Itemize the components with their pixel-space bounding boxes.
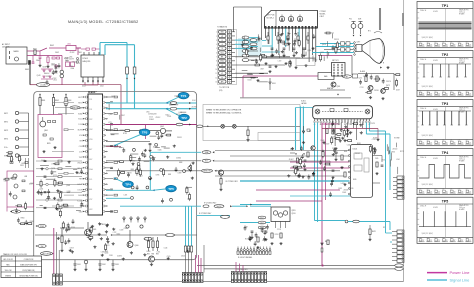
svg-text:H1: H1 bbox=[221, 65, 223, 67]
svg-text:Q2R1: Q2R1 bbox=[292, 210, 296, 212]
ferrite bead on video out 2 bbox=[170, 107, 191, 110]
wire to front led 3 bbox=[58, 250, 60, 274]
ir receiver pill bbox=[7, 207, 34, 213]
wire AC neutral bbox=[27, 55, 62, 57]
degauss wire bbox=[29, 65, 31, 85]
svg-text:D386: D386 bbox=[262, 240, 266, 242]
svg-text:2V: 2V bbox=[430, 240, 432, 242]
svg-text:R190: R190 bbox=[245, 45, 249, 47]
key connector CN801 bbox=[4, 111, 29, 157]
wires into yoke connector bbox=[386, 186, 393, 242]
transistor QG green amp bbox=[288, 15, 293, 22]
signal wire mute bbox=[120, 203, 232, 209]
svg-text:IC301: IC301 bbox=[301, 101, 306, 103]
svg-text:SCL: SCL bbox=[89, 179, 92, 181]
svg-text:2V: 2V bbox=[462, 240, 464, 242]
IC901 right pins bbox=[103, 96, 118, 212]
measurement strip TP4 bbox=[419, 189, 472, 194]
left sub-circuit box sensor bbox=[7, 171, 34, 207]
svg-text:S-CUR: S-CUR bbox=[77, 200, 83, 202]
svg-text:C218: C218 bbox=[277, 229, 281, 231]
waveform panel TP5 bbox=[417, 197, 473, 243]
svg-text:0.2: 0.2 bbox=[419, 189, 421, 191]
svg-text:Q139: Q139 bbox=[349, 188, 353, 190]
svg-text:Signal Line: Signal Line bbox=[450, 278, 471, 283]
svg-text:ABL: ABL bbox=[324, 75, 327, 78]
svg-text:0.2: 0.2 bbox=[458, 237, 460, 239]
svg-text:ZD634: ZD634 bbox=[176, 158, 181, 160]
ground for C601 bbox=[38, 64, 41, 67]
svg-text:2V: 2V bbox=[423, 142, 425, 144]
power wire 12V to sound bbox=[290, 161, 350, 163]
svg-text:0.2: 0.2 bbox=[427, 140, 429, 142]
test point TP2 callout bbox=[166, 108, 190, 121]
svg-text:5.0V p-p: 5.0V p-p bbox=[459, 60, 465, 62]
svg-text:ZD123: ZD123 bbox=[127, 172, 132, 174]
svg-text:2V: 2V bbox=[454, 93, 456, 95]
svg-text:ZD795: ZD795 bbox=[370, 123, 375, 125]
sound input components bbox=[331, 148, 347, 186]
resistor R803 bbox=[65, 94, 72, 115]
svg-text:0.2: 0.2 bbox=[419, 140, 421, 142]
svg-text:C943: C943 bbox=[115, 264, 119, 266]
svg-text:ZD931: ZD931 bbox=[177, 137, 182, 139]
svg-text:AC INPUT: AC INPUT bbox=[2, 43, 10, 46]
left deflection feed components bbox=[290, 149, 307, 171]
svg-text:HT: HT bbox=[346, 76, 348, 78]
svg-text:L744: L744 bbox=[396, 159, 400, 161]
v-out coupling to yoke bbox=[366, 131, 399, 190]
svg-text:Q922: Q922 bbox=[258, 38, 262, 40]
capacitor C942 bbox=[98, 260, 105, 271]
svg-text:REMOTE: REMOTE bbox=[71, 107, 79, 109]
svg-text:L621: L621 bbox=[320, 52, 324, 54]
svg-text:KEY1: KEY1 bbox=[4, 113, 8, 115]
svg-text:L159: L159 bbox=[278, 60, 282, 62]
svg-text:FBT T471: FBT T471 bbox=[332, 60, 339, 62]
svg-text:ZD912: ZD912 bbox=[156, 117, 161, 119]
main board outline bbox=[34, 92, 197, 260]
svg-text:R783: R783 bbox=[123, 133, 127, 135]
svg-text:R93: R93 bbox=[152, 254, 155, 256]
svg-text:R410: R410 bbox=[166, 115, 170, 117]
svg-text:2V: 2V bbox=[462, 93, 464, 95]
IC901 left pin wires bbox=[52, 97, 83, 213]
power drops to bottom connector bbox=[196, 245, 205, 273]
svg-text:L726: L726 bbox=[381, 160, 385, 162]
svg-text:0.2: 0.2 bbox=[434, 140, 436, 142]
component cluster bbox=[329, 178, 353, 197]
yoke connector CN471 bbox=[383, 227, 404, 262]
deflection IC pins bbox=[314, 119, 370, 123]
svg-text:FOC: FOC bbox=[349, 19, 352, 21]
component cluster bbox=[37, 160, 85, 218]
rgb y wire bbox=[240, 222, 270, 224]
svg-text:R953: R953 bbox=[336, 123, 340, 125]
svg-text:C400: C400 bbox=[261, 55, 265, 57]
svg-text:WHEN TV RECEIVER ON / OFF,MUT: WHEN TV RECEIVER ON / OFF,MUTE bbox=[206, 110, 242, 112]
anode high voltage lead bbox=[368, 8, 382, 33]
svg-text:D548: D548 bbox=[342, 192, 346, 194]
test point TP5 callout bbox=[153, 185, 177, 191]
svg-text:2V: 2V bbox=[446, 44, 448, 46]
svg-text:5.0V p-p: 5.0V p-p bbox=[459, 158, 465, 160]
svg-text:R611: R611 bbox=[344, 151, 347, 153]
svg-text:C942: C942 bbox=[102, 264, 106, 266]
crt pcb pin drop wires bbox=[266, 29, 316, 63]
svg-text:0.2: 0.2 bbox=[442, 237, 444, 239]
svg-text:L811: L811 bbox=[69, 57, 73, 59]
svg-text:ZD738: ZD738 bbox=[192, 107, 197, 109]
svg-text:L822: L822 bbox=[53, 80, 57, 82]
svg-text:C601: C601 bbox=[36, 60, 40, 62]
test point TP3 callout bbox=[114, 129, 150, 147]
svg-text:2V: 2V bbox=[430, 191, 432, 193]
capacitor C606 bbox=[71, 62, 75, 70]
pump-up diode cluster bbox=[296, 107, 313, 151]
svg-text:L683: L683 bbox=[21, 163, 25, 165]
earth arrows bbox=[380, 62, 385, 69]
svg-text:P01: P01 bbox=[89, 99, 92, 101]
svg-text:1(4V) 2C 3(4V): 1(4V) 2C 3(4V) bbox=[422, 135, 434, 137]
svg-text:2V: 2V bbox=[438, 44, 440, 46]
svg-text:Q791: Q791 bbox=[187, 198, 191, 200]
fuse F601 bbox=[25, 61, 31, 72]
svg-text:0.2: 0.2 bbox=[419, 91, 421, 93]
test point TP1 callout bbox=[166, 92, 189, 104]
deflection IC IC301 label bbox=[301, 101, 307, 106]
gnd rail bbox=[204, 267, 403, 270]
svg-text:0.2: 0.2 bbox=[466, 140, 468, 142]
svg-text:TP3: TP3 bbox=[142, 131, 148, 135]
svg-text:D669: D669 bbox=[147, 251, 151, 253]
component cluster bbox=[98, 222, 127, 245]
svg-text:0.2: 0.2 bbox=[458, 91, 460, 93]
svg-text:C984: C984 bbox=[124, 228, 128, 230]
svg-text:Q801: Q801 bbox=[44, 130, 48, 132]
transistor symbol Q201 bbox=[221, 124, 225, 128]
svg-text:ZD233: ZD233 bbox=[153, 147, 158, 149]
svg-text:B: B bbox=[222, 48, 223, 50]
svg-text:COL: COL bbox=[79, 151, 82, 153]
svg-text:2V: 2V bbox=[454, 142, 456, 144]
svg-text:D645: D645 bbox=[158, 150, 162, 152]
crt socket input wires bbox=[312, 42, 354, 75]
mute line through note box bbox=[197, 125, 300, 128]
waveform trace TP5 bbox=[419, 211, 471, 227]
rgb buffer box bbox=[271, 207, 296, 228]
ferrite bead on video out 1 bbox=[170, 102, 191, 105]
svg-text:VOL: VOL bbox=[79, 135, 82, 137]
svg-text:C996: C996 bbox=[155, 175, 159, 177]
svg-text:2V: 2V bbox=[462, 44, 464, 46]
svg-text:0.2: 0.2 bbox=[427, 91, 429, 93]
component cluster bbox=[108, 96, 125, 131]
crt funnel bbox=[362, 39, 385, 64]
component cluster bbox=[242, 55, 268, 82]
waveform trace TP2 bbox=[419, 64, 471, 77]
sound out wire bbox=[290, 195, 350, 197]
yoke damp resistor bbox=[368, 225, 375, 241]
svg-text:MUTE: MUTE bbox=[78, 130, 83, 132]
svg-text:0.2: 0.2 bbox=[450, 237, 452, 239]
svg-text:L722: L722 bbox=[113, 232, 117, 234]
power wire 5V to sound bbox=[290, 167, 350, 169]
g-y pill bbox=[258, 221, 266, 224]
audio mute wire bbox=[232, 205, 271, 207]
svg-text:0.5V/D: 0.5V/D bbox=[433, 207, 439, 209]
svg-text:2V: 2V bbox=[446, 240, 448, 242]
connector CN201 outline bbox=[217, 26, 237, 93]
svg-text:R93: R93 bbox=[156, 254, 159, 256]
svg-text:ST-BY(TIMER ON): ST-BY(TIMER ON) bbox=[22, 270, 35, 272]
sub-circuit box Q801 reset bbox=[38, 115, 62, 158]
svg-text:C349: C349 bbox=[119, 229, 123, 231]
svg-text:2V: 2V bbox=[423, 93, 425, 95]
legend power line bbox=[427, 270, 470, 275]
waveform trace TP1 bbox=[419, 22, 472, 30]
svg-text:L689: L689 bbox=[244, 226, 248, 228]
svg-text:CONDITION: CONDITION bbox=[24, 259, 34, 261]
svg-text:SCL: SCL bbox=[205, 161, 208, 163]
svg-text:L867: L867 bbox=[65, 60, 69, 62]
svg-text:2V: 2V bbox=[454, 44, 456, 46]
svg-text:0.2: 0.2 bbox=[442, 42, 444, 44]
svg-text:R346: R346 bbox=[321, 140, 325, 142]
bottom connector CN903 bbox=[182, 273, 203, 283]
svg-text:H2: H2 bbox=[221, 69, 223, 71]
svg-text:2V: 2V bbox=[423, 191, 425, 193]
signal wire scl bbox=[106, 159, 214, 162]
component cluster bbox=[146, 112, 161, 121]
svg-text:TP4: TP4 bbox=[442, 151, 448, 155]
AC mains input socket bbox=[6, 47, 27, 64]
svg-text:P02: P02 bbox=[89, 109, 92, 111]
svg-text:0.5V/D: 0.5V/D bbox=[433, 158, 439, 160]
svg-text:GND2: GND2 bbox=[220, 61, 224, 63]
svg-text:Q2G1: Q2G1 bbox=[292, 213, 296, 215]
svg-text:D526: D526 bbox=[181, 256, 185, 258]
svg-text:C606: C606 bbox=[71, 68, 75, 70]
svg-text:C941: C941 bbox=[77, 264, 81, 266]
svg-text:V.YOKE: V.YOKE bbox=[394, 138, 399, 140]
signal wire vertical sync bbox=[106, 189, 153, 191]
svg-text:2V: 2V bbox=[438, 240, 440, 242]
wires CN201 to crt drive bbox=[235, 39, 290, 82]
svg-text:2V: 2V bbox=[438, 142, 440, 144]
svg-text:0.2: 0.2 bbox=[466, 189, 468, 191]
chroma caps bbox=[250, 231, 282, 249]
svg-text:Q183: Q183 bbox=[338, 188, 342, 190]
transistor Q906 bbox=[127, 230, 139, 248]
svg-text:R842: R842 bbox=[73, 61, 77, 63]
component cluster bbox=[381, 143, 403, 175]
svg-text:R860: R860 bbox=[21, 218, 25, 220]
svg-text:2V: 2V bbox=[446, 142, 448, 144]
resistor R802 bbox=[52, 94, 59, 115]
svg-text:IC901*: IC901* bbox=[88, 90, 97, 94]
deflection sub components bbox=[322, 124, 380, 150]
svg-text:Q948: Q948 bbox=[42, 67, 46, 69]
svg-text:CRT PCB: CRT PCB bbox=[267, 15, 276, 17]
svg-text:Q905: Q905 bbox=[92, 229, 96, 231]
svg-text:IC601: IC601 bbox=[353, 149, 358, 151]
svg-text:D510: D510 bbox=[330, 33, 334, 35]
highlight background bbox=[238, 38, 262, 56]
svg-text:V-OUT: V-OUT bbox=[77, 190, 82, 192]
svg-text:C505: C505 bbox=[167, 256, 171, 258]
transistor symbol Q202 bbox=[232, 124, 236, 128]
svg-text:2V: 2V bbox=[446, 93, 448, 95]
svg-text:D301: D301 bbox=[272, 83, 276, 85]
svg-text:C478: C478 bbox=[51, 168, 55, 170]
svg-text:D605: D605 bbox=[82, 86, 86, 88]
bridge rectifier D601-604 bbox=[41, 69, 53, 79]
i2c bus wire to tuner bbox=[215, 150, 350, 152]
svg-text:0.2: 0.2 bbox=[419, 237, 421, 239]
page divider line bbox=[402, 0, 405, 270]
svg-text:ZD581: ZD581 bbox=[343, 190, 348, 192]
svg-text:V2: V2 bbox=[221, 77, 223, 79]
svg-text:2V: 2V bbox=[446, 191, 448, 193]
svg-text:C612: C612 bbox=[100, 86, 104, 88]
led drive pill bbox=[41, 252, 54, 256]
svg-text:TO CRT PCB: TO CRT PCB bbox=[219, 87, 230, 89]
svg-text:0.2: 0.2 bbox=[442, 91, 444, 93]
signal wire h-sync bbox=[106, 197, 130, 199]
svg-text:C261: C261 bbox=[372, 139, 376, 141]
svg-text:2V: 2V bbox=[430, 93, 432, 95]
crt neck socket bbox=[354, 42, 362, 56]
svg-text:L546: L546 bbox=[164, 247, 168, 249]
power wire to front led bbox=[53, 228, 55, 274]
b+ adjust circuit bbox=[353, 70, 395, 100]
svg-text:R172: R172 bbox=[245, 238, 249, 240]
svg-text:C214: C214 bbox=[149, 117, 153, 119]
svg-text:TP2: TP2 bbox=[442, 53, 448, 57]
svg-text:2V: 2V bbox=[462, 142, 464, 144]
svg-text:0.2: 0.2 bbox=[442, 140, 444, 142]
svg-text:0.2: 0.2 bbox=[458, 140, 460, 142]
svg-text:Power Line: Power Line bbox=[450, 270, 471, 275]
svg-text:FBP: FBP bbox=[79, 179, 82, 181]
svg-text:0.2: 0.2 bbox=[466, 42, 468, 44]
connector CN201 pins bbox=[215, 30, 235, 84]
crt drive bias parts bbox=[262, 32, 316, 58]
component cluster bbox=[319, 32, 338, 62]
svg-text:Q906: Q906 bbox=[135, 245, 139, 247]
svg-text:0.2: 0.2 bbox=[434, 91, 436, 93]
svg-text:D167: D167 bbox=[30, 183, 34, 185]
svg-text:SW: SW bbox=[41, 246, 44, 248]
svg-text:Q333: Q333 bbox=[152, 114, 156, 116]
h yoke connector CN472 bbox=[393, 176, 404, 199]
svg-text:ZD464: ZD464 bbox=[346, 123, 351, 125]
capacitor C941 bbox=[73, 260, 80, 271]
svg-text:L601: L601 bbox=[67, 44, 71, 46]
svg-text:WHEN TV RECEIVER (1A) / CONTR: WHEN TV RECEIVER (1A) / CONTROL bbox=[206, 112, 243, 115]
diode D301 bbox=[269, 78, 276, 90]
svg-text:R927: R927 bbox=[46, 76, 50, 78]
svg-text:KD1 WK-4: KD1 WK-4 bbox=[267, 18, 274, 20]
svg-text:2V: 2V bbox=[438, 191, 440, 193]
waveform panel TP4 bbox=[417, 149, 473, 195]
capacitor C943 bbox=[111, 260, 118, 271]
deflection pin drop wires bbox=[315, 123, 370, 266]
legend signal line bbox=[427, 278, 470, 283]
svg-text:Q828: Q828 bbox=[322, 44, 326, 46]
svg-text:0.2: 0.2 bbox=[450, 189, 452, 191]
power wire 9V rail bbox=[106, 123, 197, 126]
svg-text:0.2: 0.2 bbox=[458, 189, 460, 191]
svg-text:ZD607: ZD607 bbox=[289, 159, 294, 161]
svg-text:LED COLOR: LED COLOR bbox=[3, 259, 14, 261]
svg-text:F601: F601 bbox=[25, 69, 29, 71]
svg-text:C611: C611 bbox=[347, 145, 351, 147]
svg-text:TP2: TP2 bbox=[181, 116, 187, 120]
main h-gnd bus bbox=[240, 97, 351, 99]
svg-text:0.5V/D: 0.5V/D bbox=[433, 60, 439, 62]
component cluster bbox=[119, 147, 182, 177]
power wire heater bbox=[243, 76, 318, 98]
wire to front led 2 bbox=[56, 232, 58, 274]
wire IC501 to line filter bbox=[76, 48, 81, 55]
component cluster bbox=[3, 152, 34, 225]
waveform trace TP3 bbox=[419, 111, 471, 125]
svg-text:C166: C166 bbox=[260, 228, 264, 230]
bottom connector CN904 bbox=[231, 269, 266, 283]
degauss loop wire bbox=[234, 7, 262, 40]
svg-text:D259: D259 bbox=[396, 89, 400, 91]
svg-text:REMOTE: REMOTE bbox=[203, 171, 211, 173]
signal wire option bbox=[197, 213, 230, 218]
remote in wire bbox=[106, 169, 216, 173]
svg-text:Q568: Q568 bbox=[66, 185, 70, 187]
component rows left of IC901 bbox=[36, 160, 82, 209]
svg-text:0.2: 0.2 bbox=[419, 42, 421, 44]
signal wire bus top bbox=[100, 43, 135, 109]
svg-text:TO POWER B'D: TO POWER B'D bbox=[236, 269, 248, 271]
svg-text:C430: C430 bbox=[102, 224, 106, 226]
svg-text:IF CT25B2 ONLY: IF CT25B2 ONLY bbox=[226, 181, 239, 183]
vertical blank wire bbox=[256, 189, 340, 191]
svg-text:C851: C851 bbox=[20, 165, 24, 167]
svg-text:L853: L853 bbox=[139, 176, 143, 178]
svg-text:R345: R345 bbox=[54, 73, 58, 75]
svg-text:ZD162: ZD162 bbox=[355, 153, 360, 155]
svg-text:0.2: 0.2 bbox=[434, 189, 436, 191]
svg-text:C615: C615 bbox=[375, 158, 379, 160]
svg-text:YELLOW: YELLOW bbox=[4, 270, 11, 272]
resistor network R931-933 bbox=[147, 237, 159, 256]
B+ wire to main board bbox=[30, 85, 121, 125]
svg-text:TP4: TP4 bbox=[125, 183, 131, 187]
svg-text:V1: V1 bbox=[221, 73, 223, 75]
svg-text:KEY3: KEY3 bbox=[4, 130, 8, 132]
sync wire bbox=[35, 234, 197, 237]
svg-text:ZD607: ZD607 bbox=[324, 144, 329, 146]
svg-text:1(4V) 2C 3(4V): 1(4V) 2C 3(4V) bbox=[422, 233, 434, 235]
cyan drops to bottom connector bbox=[186, 206, 192, 246]
crt pcb outline bbox=[265, 11, 318, 28]
signal wire video out 2 bbox=[106, 108, 197, 110]
svg-text:IC501: IC501 bbox=[83, 58, 89, 60]
waveform trace TP4 bbox=[419, 165, 471, 179]
x-ray protect pill bbox=[144, 237, 152, 240]
svg-text:2V: 2V bbox=[469, 240, 471, 242]
svg-text:Q119: Q119 bbox=[186, 95, 190, 97]
svg-text:1(4V) 2C 3(4V): 1(4V) 2C 3(4V) bbox=[422, 37, 434, 39]
